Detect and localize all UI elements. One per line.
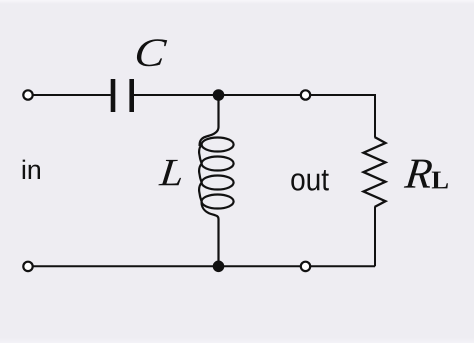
label L subscript (of R_L) bbox=[432, 172, 448, 189]
wire top: capacitor to out terminal and right corner bbox=[134, 94, 375, 96]
capacitor C left plate bbox=[111, 79, 116, 112]
inductor L (leads and coil) bbox=[199, 95, 234, 266]
wire right vertical: corner to resistor bbox=[374, 94, 376, 137]
resistor R_L zigzag bbox=[364, 137, 386, 207]
terminal out (top-right, open circle) bbox=[301, 90, 310, 99]
terminal in return (bottom-left, open circle) bbox=[23, 262, 32, 271]
wire bottom bbox=[33, 265, 376, 267]
terminal in (top-left, open circle) bbox=[23, 90, 32, 99]
label in bbox=[23, 160, 40, 179]
label R (of R_L) bbox=[404, 160, 432, 188]
label L bbox=[158, 160, 181, 185]
label C bbox=[137, 39, 167, 66]
node dot: bottom junction of L bbox=[213, 261, 225, 273]
wire top: input terminal to capacitor bbox=[33, 94, 111, 96]
label out bbox=[291, 170, 329, 191]
terminal out return (bottom-right, open circle) bbox=[301, 262, 310, 271]
wire right vertical: resistor to bottom bbox=[374, 207, 376, 266]
node dot: top junction of L bbox=[213, 89, 225, 101]
capacitor C right plate bbox=[129, 79, 134, 112]
